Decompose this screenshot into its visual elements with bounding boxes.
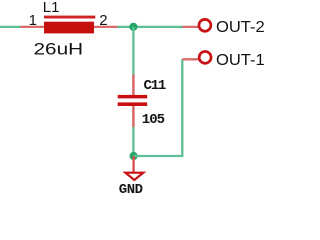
svg-text:105: 105 [142,112,165,128]
wire (left net entering from edge) [0,26,21,28]
wire (pin 2 stub of L1) [94,26,118,28]
svg-text:1: 1 [29,12,37,29]
connector pin OUT-2 [199,19,211,31]
wire (net from L1 to OUT-2) [117,26,182,28]
wire (vertical riser to OUT-1) [181,59,183,157]
svg-text:GND: GND [119,182,143,196]
wire (vertical drop to C11) [132,27,134,75]
wire (ground pin stub) [132,156,134,173]
wire (pin 1 stub of C11) [132,75,134,96]
svg-text:OUT-2: OUT-2 [216,19,265,36]
wire (pin stub of OUT-1) [182,58,199,60]
ground symbol triangle [125,173,143,180]
connector pin OUT-1 [199,51,211,63]
capacitor C11 top plate [118,95,148,99]
svg-text:C11: C11 [144,78,166,94]
junction node at L1 output [129,23,137,31]
wire (pin 2 stub of C11) [132,106,134,128]
wire (pin stub of OUT-2) [182,26,199,28]
svg-text:26uH: 26uH [34,40,84,59]
wire (bottom horizontal net to OUT-1 branch) [134,155,183,157]
svg-text:L1: L1 [43,0,60,16]
junction node at ground [130,152,138,160]
inductor L1 body bar [44,16,95,19]
capacitor C11 bottom plate [118,102,148,106]
wire (vertical from C11 to ground node) [132,127,134,156]
inductor L1 body [44,22,94,34]
wire (pin 1 stub of L1) [21,26,45,28]
svg-text:OUT-1: OUT-1 [216,52,265,69]
